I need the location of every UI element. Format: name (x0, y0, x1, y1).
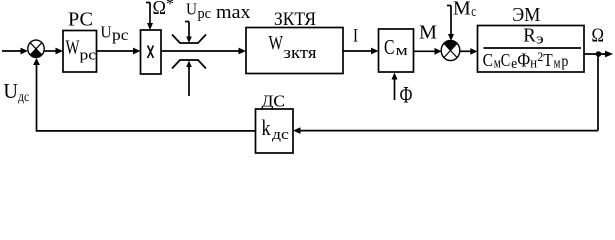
svg-text:м: м (396, 43, 409, 59)
block W_rc (regulator PC) (63, 31, 97, 73)
block k_dc (speed sensor DC) (256, 109, 294, 153)
wire input (2, 50, 21, 52)
svg-text:рс: рс (112, 27, 129, 44)
summing junction S2 (441, 40, 460, 60)
wire Omega* input arrow into X (146, 3, 153, 31)
block C_m (379, 29, 414, 72)
svg-text:M: M (419, 22, 437, 44)
svg-text:W: W (66, 37, 80, 59)
svg-text:С: С (483, 50, 493, 70)
wire Phi input arrow into C_m (392, 73, 398, 101)
block X (multiplier) (141, 30, 162, 74)
svg-text:I: I (353, 26, 358, 47)
block EM (motor) (478, 26, 585, 73)
svg-text:ДС: ДС (262, 92, 286, 111)
svg-text:н: н (530, 56, 537, 72)
svg-text:Ф: Ф (517, 50, 530, 72)
svg-text:Т: Т (543, 50, 552, 70)
wire M_c input arrow into S2 (447, 6, 454, 42)
svg-text:R: R (523, 24, 536, 46)
svg-text:Ω: Ω (592, 25, 605, 47)
arrowhead into summer S1 (21, 48, 29, 55)
letter X inside multiplier (148, 46, 154, 59)
wire EM output, node Omega (584, 53, 606, 55)
svg-text:k: k (262, 115, 271, 140)
svg-text:рс: рс (80, 48, 97, 64)
wire S1 to block W_rc (44, 50, 56, 52)
block W_zktya (ZKTYA) (246, 28, 343, 74)
svg-text:р: р (561, 53, 568, 70)
svg-text:С: С (384, 35, 395, 59)
fraction bar of EM block (484, 47, 582, 49)
svg-text:U: U (186, 0, 197, 19)
arrowhead feedback into S1, node U_dc (33, 58, 40, 65)
svg-text:м: м (554, 56, 561, 72)
svg-text:ЭМ: ЭМ (512, 4, 540, 26)
limiter symbol bottom bracket (172, 60, 206, 69)
svg-text:дс: дс (272, 127, 289, 143)
limiter bottom arrow (186, 61, 192, 97)
summing junction S1 (28, 40, 44, 57)
svg-text:зктя: зктя (284, 43, 317, 62)
svg-text:РС: РС (68, 9, 93, 31)
wire S2 to EM block (460, 50, 471, 52)
svg-text:*: * (166, 0, 174, 13)
svg-text:Ω: Ω (153, 0, 167, 19)
limiter top arrow (185, 22, 192, 44)
svg-text:дс: дс (18, 90, 29, 105)
svg-text:С: С (501, 50, 511, 70)
wire feedback bottom right segment into k_dc (300, 130, 599, 132)
wire C_m to summer S2, node M (414, 50, 437, 52)
wire feedback bottom left segment and riser (37, 65, 256, 131)
svg-text:U: U (3, 79, 18, 103)
svg-text:с: с (471, 4, 476, 20)
svg-text:W: W (269, 32, 284, 54)
svg-text:ЗКТЯ: ЗКТЯ (274, 9, 316, 30)
limiter symbol top bracket (172, 35, 206, 44)
svg-text:э: э (536, 31, 544, 47)
wire W_rc to multiplier X, node U_rc (97, 50, 135, 52)
wire feedback vertical down from output node (597, 54, 599, 131)
svg-text:Ф: Ф (400, 83, 413, 108)
svg-text:рс: рс (198, 6, 212, 22)
wire ZKTYA to C_m, node I (343, 50, 372, 52)
svg-text:max: max (216, 2, 251, 23)
svg-text:U: U (101, 23, 112, 42)
svg-text:M: M (453, 0, 471, 20)
wire X to ZKTYA block (161, 50, 240, 52)
junction node on output wire (596, 51, 602, 57)
